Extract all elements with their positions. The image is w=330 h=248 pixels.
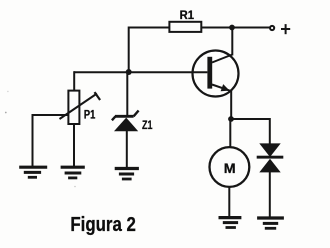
svg-text:Z1: Z1 <box>142 118 153 132</box>
svg-text:R1: R1 <box>180 8 195 22</box>
svg-text:M: M <box>224 161 236 177</box>
svg-text:Figura 2: Figura 2 <box>70 213 135 236</box>
svg-text:P1: P1 <box>84 108 96 122</box>
